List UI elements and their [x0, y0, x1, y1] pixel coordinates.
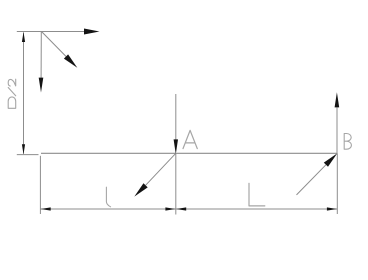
node A diagonal wire below beam	[146, 153, 176, 185]
label l	[106, 187, 110, 207]
dimension L right arrowhead	[327, 207, 337, 210]
dimension D/2 top extension tick	[17, 31, 42, 33]
node A load wire (vertical above beam)	[175, 94, 177, 140]
extension line middle (below beam at node A)	[175, 154, 177, 215]
dimension l left arrowhead	[41, 207, 51, 210]
node B diagonal arrowhead up-right	[324, 153, 337, 166]
extension line left (below beam at left end)	[39, 156, 41, 214]
node B arrowhead up	[335, 92, 340, 107]
label D/2	[8, 79, 16, 108]
extension line right (below beam at node B)	[336, 153, 338, 214]
force wire diagonal (top-left origin 45 degrees)	[42, 32, 67, 57]
dimension D/2 bottom extension tick	[17, 154, 39, 156]
label L	[249, 183, 265, 206]
force arrowhead down	[39, 78, 44, 93]
node B diagonal wire below beam	[297, 165, 326, 195]
dimension l line	[40, 208, 175, 210]
dimension D/2 up arrowhead	[22, 32, 25, 42]
force arrowhead right	[84, 29, 100, 35]
dimension D/2 dimension line	[23, 33, 25, 154]
force wire right (top-left origin horizontal)	[42, 31, 86, 33]
label A	[183, 130, 197, 148]
node A arrowhead down onto beam	[174, 139, 178, 154]
force wire down (top-left origin vertical)	[40, 32, 42, 79]
force arrowhead diagonal down-right	[64, 54, 77, 67]
node B reaction wire (vertical above beam end)	[336, 108, 338, 154]
dimension l right arrowhead	[165, 207, 175, 210]
dimension D/2 down arrowhead	[22, 144, 25, 154]
beam (main horizontal member)	[41, 152, 337, 154]
label B	[344, 134, 351, 150]
node A diagonal arrowhead down-left	[134, 183, 147, 196]
dimension L left arrowhead	[176, 207, 186, 210]
dimension L line	[176, 208, 337, 210]
